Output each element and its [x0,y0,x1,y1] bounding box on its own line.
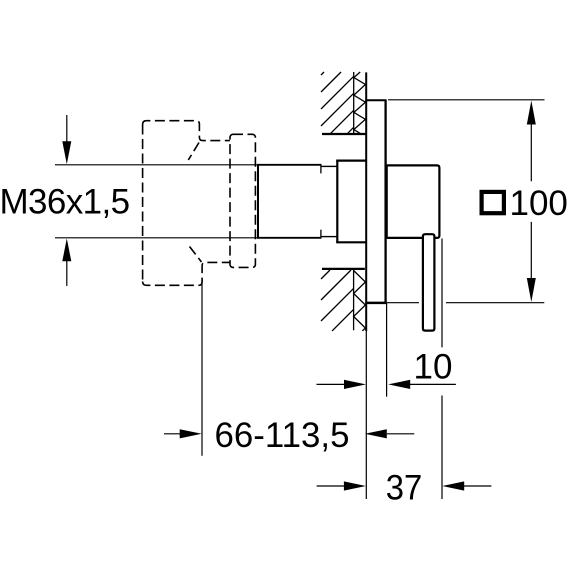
66-113,5 dim line [164,433,414,435]
shank block top edge [336,160,366,162]
10 dim line [317,383,456,385]
handle body U1 [387,165,440,238]
wall hatch bottom section diagonal lines [321,270,354,331]
shank block bottom edge [336,241,366,243]
svg-text:100: 100 [510,184,568,223]
thread bottom edge [257,237,322,239]
handle left edge on plate [386,165,388,238]
svg-text:M36x1,5: M36x1,5 [0,182,130,221]
wall hatch top section plaster zigzag [354,72,366,134]
thread top edge [257,164,322,166]
hex nut bottom diagonal [190,247,202,263]
M36 arrow bottom [66,261,68,286]
10 arrowhead left [388,380,410,389]
37 arrowhead left [442,481,464,490]
arrowheads [62,101,536,491]
svg-text:66-113,5: 66-113,5 [215,416,350,455]
thread runout tick bottom [320,230,322,237]
wall hatch top section diagonal lines [321,72,354,134]
37 dim line [317,485,492,487]
M36 bottom dimension line [55,237,257,239]
escutcheon plate bottom edge [365,302,387,305]
66-113,5 arrowhead right [180,429,202,438]
neck step bottom [322,236,338,238]
wall hatch top section bottom border [322,133,367,135]
thread runout tick top [320,165,322,174]
extension line 66-113,5 left [201,280,203,456]
lever rod [423,234,435,330]
M36 top dimension line [55,164,257,166]
escutcheon plate front face [384,100,386,303]
10 arrowhead right [344,380,366,389]
extension line handle front [441,239,443,500]
hex nut top diagonal [188,143,199,161]
svg-text:10: 10 [414,347,453,386]
37 arrowhead right [344,481,366,490]
M36 arrow top [66,115,68,142]
wall hatch bottom section top border [322,268,365,270]
M36 arrowhead up [62,238,71,261]
square-100 arrowhead down [527,278,536,302]
extension line plate front [386,303,388,397]
wall hatch bottom section plaster zigzag [354,271,366,331]
label square symbol [482,192,504,213]
M36 arrowhead down [62,141,71,164]
threaded nipple left edge [257,165,259,238]
shank block left edge [336,161,338,243]
square-100 dim bottom ref line [387,302,545,304]
concealed body dashed outline top profile [143,121,256,286]
square-100 dim top ref line [388,99,545,101]
svg-text:37: 37 [386,469,423,508]
collar dashed rounded rect [230,134,255,267]
wall face line [365,72,367,331]
66-113,5 arrowhead left [365,429,387,438]
wall hatch bottom section boundary line [353,270,355,330]
concealed body dashed left edge [142,125,144,282]
square-100 arrowhead up [527,101,536,125]
square-100 vertical dim line [530,124,532,279]
extension line wall face [365,331,367,499]
escutcheon plate top edge [365,99,386,101]
wall hatch top section boundary line [353,72,355,134]
neck step top [322,165,338,167]
concealed body dashed bottom profile [143,262,230,285]
